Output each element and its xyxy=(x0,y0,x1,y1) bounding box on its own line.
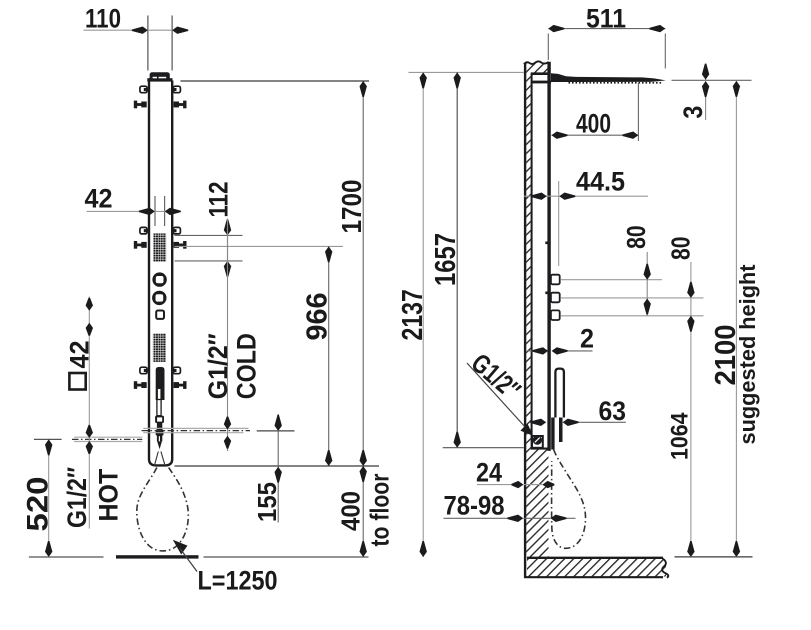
wall bracket small pair 3 xyxy=(140,367,181,374)
svg-text:1700: 1700 xyxy=(336,180,367,234)
dim 3 xyxy=(672,79,752,81)
wall bracket small pair 1 xyxy=(140,86,181,93)
holder bars xyxy=(551,418,554,450)
recess back line xyxy=(531,73,533,448)
hose loop front xyxy=(137,468,189,551)
wall bracket T pair 3 xyxy=(134,381,187,389)
floor wavy end xyxy=(662,559,668,578)
dim 42 top xyxy=(87,210,181,212)
hand shower bulge xyxy=(156,430,164,436)
svg-text:112: 112 xyxy=(203,182,233,218)
hand shower collar xyxy=(155,416,164,423)
top ref line xyxy=(409,71,524,73)
dim 1700 xyxy=(362,81,364,466)
svg-text:G1/2″: G1/2″ xyxy=(203,333,233,399)
shower column body xyxy=(149,81,172,466)
svg-text:44.5: 44.5 xyxy=(576,167,625,197)
knob K3 square xyxy=(156,311,164,319)
supply pipe ticks xyxy=(154,196,156,226)
ref line y466 xyxy=(175,465,380,467)
svg-text:to floor: to floor xyxy=(365,474,395,547)
wall hatch top block xyxy=(526,63,547,74)
hose loop side xyxy=(552,450,586,549)
dim 520 xyxy=(48,439,50,557)
wall outer edge xyxy=(524,63,526,578)
dim 44.5 xyxy=(524,195,648,197)
hand shower handle xyxy=(156,367,165,400)
leader L=1250 xyxy=(173,540,188,555)
recess bottom line xyxy=(531,448,549,450)
hand shower stem xyxy=(157,423,162,430)
wall bracket T pair 2 xyxy=(134,241,187,249)
svg-text:2: 2 xyxy=(580,324,594,354)
dim 80 no2 + 1064 xyxy=(690,262,692,557)
svg-text:2137: 2137 xyxy=(397,289,429,340)
dim 2137 xyxy=(422,72,424,557)
hand shower bar side xyxy=(555,369,564,418)
svg-text:suggested height: suggested height xyxy=(735,264,760,444)
dim 80 no1 xyxy=(646,252,648,316)
column top cap xyxy=(150,72,170,80)
panel profile xyxy=(547,62,550,451)
dim 2 xyxy=(527,350,534,352)
shower head wedge xyxy=(551,73,666,82)
svg-text:110: 110 xyxy=(85,4,121,34)
arm anchor bars xyxy=(531,72,549,75)
svg-text:42: 42 xyxy=(64,341,94,369)
svg-text:1064: 1064 xyxy=(666,412,693,460)
floor line front xyxy=(29,556,104,558)
hand shower neck xyxy=(157,400,161,416)
svg-text:1657: 1657 xyxy=(430,233,462,286)
dim 78-98 xyxy=(444,517,513,519)
svg-text:3: 3 xyxy=(678,106,708,119)
svg-text:63: 63 xyxy=(599,396,627,426)
1657 bottom ref xyxy=(443,447,524,449)
dim 966 xyxy=(328,246,330,466)
floor hatch strip xyxy=(527,559,666,577)
svg-text:520: 520 xyxy=(21,477,54,532)
dim square-42 + HOT pointer xyxy=(88,297,90,529)
hand shower axis xyxy=(558,181,560,266)
155 top tick xyxy=(257,430,295,432)
spray cone lines xyxy=(154,452,158,467)
svg-text:400: 400 xyxy=(338,491,366,531)
wall hatch band xyxy=(526,73,531,448)
svg-text:966: 966 xyxy=(301,293,333,341)
svg-text:G1/2″: G1/2″ xyxy=(62,467,92,528)
wall bracket small pair 2 xyxy=(140,227,181,234)
knob K2 xyxy=(152,291,166,305)
knob K1 xyxy=(152,272,166,286)
dim 24 xyxy=(477,484,514,486)
knob ref lines xyxy=(561,279,662,281)
supply elbow xyxy=(532,436,543,448)
floor ref right xyxy=(675,556,753,558)
dim 63 xyxy=(576,421,626,423)
dim 1657 xyxy=(456,72,458,447)
dim 155 xyxy=(277,414,279,523)
svg-text:155: 155 xyxy=(252,482,282,522)
dim 511 xyxy=(547,34,549,61)
svg-text:400: 400 xyxy=(576,109,611,139)
svg-text:80: 80 xyxy=(621,225,651,249)
dim 110 xyxy=(147,16,149,71)
svg-text:511: 511 xyxy=(586,4,626,34)
svg-text:78-98: 78-98 xyxy=(444,491,505,521)
hand shower nozzle tip xyxy=(157,441,162,449)
head spray dots xyxy=(569,82,663,84)
ref line 1700 top xyxy=(181,80,370,82)
svg-text:42: 42 xyxy=(85,184,113,214)
svg-text:80: 80 xyxy=(665,237,695,261)
jet ref lines xyxy=(175,234,243,236)
wall wavy top xyxy=(524,61,549,64)
wall bracket T pair 1 xyxy=(134,101,187,109)
dim 112 xyxy=(227,219,229,277)
body jet block 2 xyxy=(153,333,166,362)
panel pin dots xyxy=(545,242,548,245)
label G1/2 COLD + pointer xyxy=(227,219,229,452)
knob bumps xyxy=(551,275,560,285)
COLD centerline band xyxy=(143,427,248,429)
svg-text:24: 24 xyxy=(476,458,502,488)
HOT centerline band xyxy=(74,436,142,438)
floor slab xyxy=(527,557,663,559)
dim 400 to floor xyxy=(362,466,364,557)
svg-text:L=1250: L=1250 xyxy=(198,566,278,596)
wall hatch bottom block xyxy=(526,449,548,558)
svg-text:HOT: HOT xyxy=(94,468,124,521)
dim 2100 suggested height xyxy=(735,81,737,557)
dim 400 side xyxy=(637,83,639,141)
svg-text:COLD: COLD xyxy=(231,333,261,399)
body jet block 1 xyxy=(153,233,166,262)
